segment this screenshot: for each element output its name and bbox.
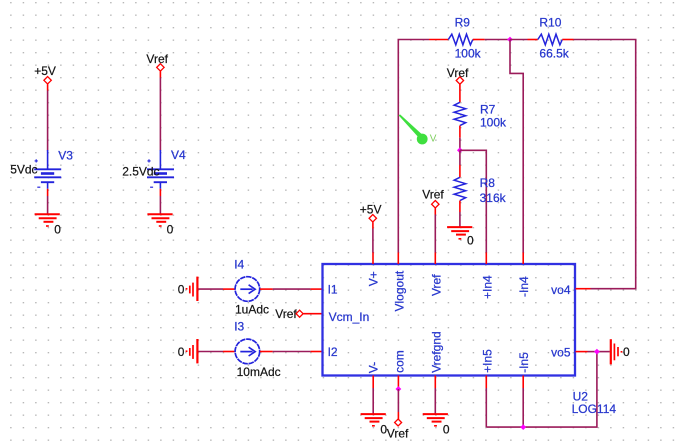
- ground 0 (vo5 right, rotated): [611, 339, 630, 364]
- pin Vlogout: [392, 252, 406, 312]
- current source I4: [234, 258, 269, 317]
- wire -In5 down: [522, 388, 524, 427]
- current source I3: [234, 320, 280, 379]
- ground 0 (R8): [447, 227, 474, 248]
- svg-text:com: com: [392, 350, 406, 373]
- svg-text:+In5: +In5: [480, 349, 494, 373]
- junction R9/R10: [507, 37, 513, 43]
- node Vref port (Vcm_In): [275, 307, 322, 321]
- wire I3 left: [198, 351, 236, 353]
- wire V4 top: [159, 71, 161, 150]
- node Vref port (above box): [422, 187, 444, 208]
- node Vref port (R7 top): [447, 66, 469, 84]
- wire I3 right: [260, 351, 323, 353]
- svg-text:100k: 100k: [455, 47, 482, 61]
- pin -In4: [517, 252, 531, 297]
- wire V3 top: [47, 84, 49, 150]
- svg-text:V: V: [430, 133, 437, 144]
- wire Vref to pin: [434, 208, 436, 252]
- svg-text:2.5Vdc: 2.5Vdc: [122, 164, 159, 178]
- wire Vref to R7: [459, 84, 461, 102]
- voltage source V4: [122, 148, 186, 189]
- resistor R10: [538, 15, 570, 60]
- ground 0 (I3 left, rotated): [178, 339, 198, 363]
- svg-text:66.5k: 66.5k: [539, 47, 569, 61]
- svg-text:-In5: -In5: [517, 352, 531, 373]
- ground 0 (I4 left, rotated): [178, 277, 198, 301]
- ground 0 (Vrefgnd): [423, 414, 450, 436]
- svg-text:V+: V+: [366, 271, 380, 286]
- op-amp U2 LOG114 box: [323, 264, 576, 376]
- wire I4 right: [260, 288, 323, 290]
- svg-text:Vref: Vref: [422, 187, 444, 201]
- pin Vref (top): [429, 252, 443, 296]
- wire Vlogout up and to R9: [398, 40, 448, 253]
- svg-text:V-: V-: [366, 362, 380, 373]
- svg-text:0: 0: [443, 422, 450, 436]
- pin V-: [366, 362, 380, 388]
- svg-text:vo4: vo4: [551, 283, 571, 297]
- svg-text:0: 0: [467, 234, 474, 248]
- ground 0 (V-): [361, 414, 388, 436]
- svg-text:-In4: -In4: [517, 276, 531, 297]
- pin +In4: [480, 252, 494, 299]
- ground 0 (V3): [35, 214, 62, 236]
- svg-text:Vref: Vref: [275, 307, 297, 321]
- svg-text:I2: I2: [328, 345, 338, 359]
- wire V- to ground: [372, 388, 374, 414]
- wire Vrefgnd to ground: [434, 388, 436, 414]
- wire R10 to vo4 feedback: [562, 40, 635, 289]
- wire junction down to -In4: [510, 40, 523, 253]
- wire R8 to ground: [459, 201, 461, 227]
- svg-text:+In4: +In4: [480, 275, 494, 299]
- svg-text:1uAdc: 1uAdc: [235, 303, 269, 317]
- svg-text:Vref: Vref: [387, 426, 409, 440]
- voltage source V3: [10, 149, 73, 189]
- junction R7/R8: [457, 147, 463, 153]
- wire R7 to junction: [459, 126, 461, 151]
- svg-text:100k: 100k: [480, 116, 507, 130]
- node Vref port (com bottom): [387, 419, 409, 440]
- svg-text:316k: 316k: [480, 191, 507, 205]
- wire +In5 down: [485, 388, 487, 427]
- wire +5V to V+: [372, 222, 374, 252]
- junction com: [396, 386, 402, 392]
- wire V3 bottom: [47, 189, 49, 214]
- svg-text:0: 0: [178, 345, 185, 359]
- svg-text:0: 0: [54, 222, 61, 236]
- wire I4 left: [198, 288, 236, 290]
- svg-text:V3: V3: [58, 149, 73, 163]
- pin com: [392, 350, 406, 387]
- svg-text:+5V: +5V: [360, 203, 382, 217]
- svg-text:I4: I4: [234, 258, 244, 272]
- wire V4 bottom: [159, 189, 161, 214]
- svg-text:Vref: Vref: [146, 52, 168, 66]
- svg-text:Vlogout: Vlogout: [392, 270, 406, 311]
- svg-text:Vref: Vref: [429, 274, 443, 296]
- svg-text:0: 0: [167, 222, 174, 236]
- svg-text:R7: R7: [480, 102, 496, 116]
- svg-text:R8: R8: [480, 176, 496, 190]
- svg-text:10mAdc: 10mAdc: [237, 365, 281, 379]
- pin -In5: [517, 352, 531, 388]
- svg-text:0: 0: [623, 345, 630, 359]
- svg-text:vo5: vo5: [551, 346, 571, 360]
- junction vo5: [594, 349, 600, 355]
- resistor R7: [454, 102, 507, 129]
- wire R9 to junction: [473, 39, 510, 41]
- pin V+: [366, 252, 380, 286]
- wire junction to R10: [510, 39, 538, 41]
- wire junction to +In4: [460, 150, 486, 252]
- svg-text:I3: I3: [234, 320, 244, 334]
- svg-text:Vref: Vref: [447, 66, 469, 80]
- pin +In5: [480, 349, 494, 388]
- svg-text:V4: V4: [171, 148, 186, 162]
- svg-text:Vrefgnd: Vrefgnd: [429, 331, 443, 373]
- svg-text:5Vdc: 5Vdc: [10, 163, 37, 177]
- node Vref port (V4 top): [146, 52, 168, 71]
- svg-text:+5V: +5V: [34, 64, 56, 78]
- resistor R8: [454, 176, 507, 205]
- svg-text:I1: I1: [328, 283, 338, 297]
- wire bottom rail to vo5: [486, 352, 597, 428]
- wire com down: [397, 389, 399, 419]
- junction -In5/rail: [520, 424, 526, 430]
- ground 0 (V4): [147, 214, 173, 236]
- pin Vrefgnd: [429, 331, 443, 388]
- svg-text:LOG114: LOG114: [572, 402, 617, 416]
- resistor R9: [448, 15, 481, 60]
- svg-text:R9: R9: [455, 15, 471, 29]
- U2 reference label: [572, 390, 617, 417]
- wire vo5 right: [576, 351, 610, 353]
- wire junction to R8: [459, 150, 461, 177]
- probe marker (green): [399, 115, 437, 145]
- node +5V port (V3 top): [34, 64, 56, 84]
- node +5V port (above box): [360, 203, 382, 222]
- svg-text:0: 0: [178, 282, 185, 296]
- svg-text:Vcm_In: Vcm_In: [329, 310, 370, 324]
- svg-text:R10: R10: [539, 15, 561, 29]
